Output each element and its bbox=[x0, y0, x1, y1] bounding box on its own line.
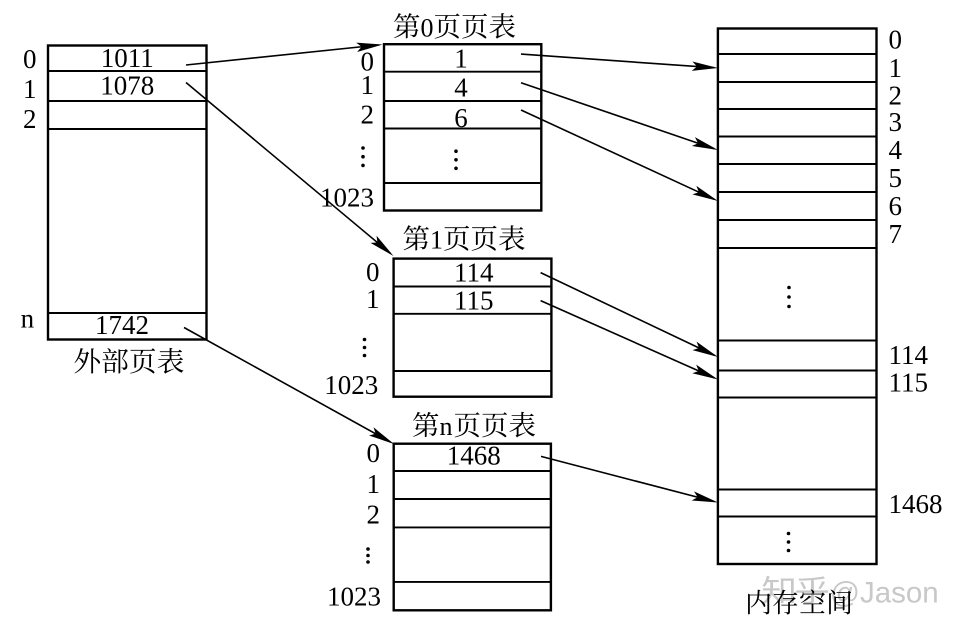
svg-text:1023: 1023 bbox=[327, 582, 381, 612]
svg-text:114: 114 bbox=[454, 258, 494, 288]
svg-text:1: 1 bbox=[430, 225, 443, 254]
svg-text:0: 0 bbox=[889, 25, 903, 55]
svg-text:1011: 1011 bbox=[101, 43, 154, 73]
svg-text:n: n bbox=[440, 412, 453, 441]
svg-text:2: 2 bbox=[23, 104, 37, 134]
svg-text:n: n bbox=[21, 304, 35, 334]
svg-text:0: 0 bbox=[421, 13, 434, 42]
svg-text:1023: 1023 bbox=[324, 370, 378, 400]
svg-text:114: 114 bbox=[889, 340, 929, 370]
svg-text:115: 115 bbox=[889, 368, 929, 398]
svg-text:0: 0 bbox=[367, 438, 381, 468]
svg-text:@Jason: @Jason bbox=[830, 577, 939, 610]
svg-text:6: 6 bbox=[454, 103, 468, 133]
svg-text:2: 2 bbox=[889, 80, 903, 110]
svg-text:1468: 1468 bbox=[889, 489, 943, 519]
svg-text:1078: 1078 bbox=[100, 71, 154, 101]
svg-text:2: 2 bbox=[361, 99, 375, 129]
svg-text:1: 1 bbox=[361, 70, 375, 100]
svg-text:1: 1 bbox=[889, 53, 903, 83]
svg-text:2: 2 bbox=[367, 500, 381, 530]
svg-text:0: 0 bbox=[23, 44, 37, 74]
svg-text:5: 5 bbox=[889, 163, 903, 193]
svg-text:0: 0 bbox=[366, 257, 380, 287]
svg-text:6: 6 bbox=[889, 191, 903, 221]
svg-text:1: 1 bbox=[367, 469, 381, 499]
svg-text:115: 115 bbox=[454, 285, 494, 315]
svg-text:4: 4 bbox=[454, 72, 468, 102]
svg-text:4: 4 bbox=[889, 135, 903, 165]
svg-text:1: 1 bbox=[366, 284, 380, 314]
svg-text:3: 3 bbox=[889, 107, 903, 137]
svg-text:7: 7 bbox=[889, 219, 903, 249]
svg-text:1: 1 bbox=[23, 74, 37, 104]
svg-text:1468: 1468 bbox=[447, 441, 501, 471]
svg-text:1742: 1742 bbox=[95, 310, 149, 340]
svg-text:1: 1 bbox=[454, 44, 468, 74]
svg-text:1023: 1023 bbox=[320, 183, 374, 213]
